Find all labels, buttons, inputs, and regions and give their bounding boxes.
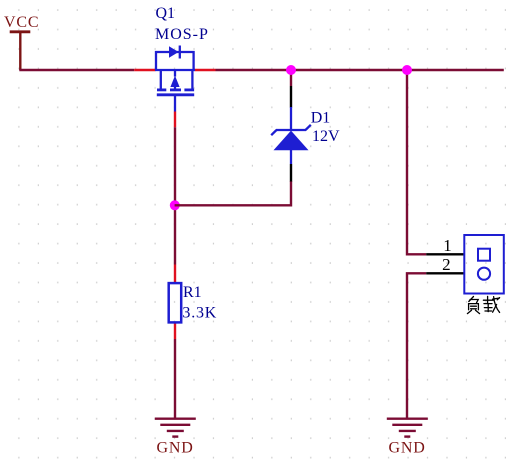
svg-text:1: 1 — [443, 236, 452, 255]
resistor R1 top pin (red) — [174, 265, 176, 284]
resistor R1 body — [169, 283, 182, 322]
junction node gate/R1 — [170, 200, 180, 210]
connector body (load header) — [464, 235, 504, 294]
svg-text:12V: 12V — [312, 128, 340, 145]
transistor Q1 body — [155, 46, 195, 112]
junction node rail/load — [402, 65, 412, 75]
svg-text:2: 2 — [442, 255, 451, 274]
diode D1 anode pin (black) — [290, 164, 292, 182]
svg-text:R1: R1 — [183, 284, 202, 301]
wire rail junction down to connector pin 1 — [407, 70, 426, 254]
connector pin 1 line (black) — [426, 253, 464, 255]
svg-text:Q1: Q1 — [156, 5, 176, 22]
diode D1 cathode pin (black) — [290, 86, 292, 108]
wire junction to D1 anode (horizontal + vertical) — [175, 181, 291, 205]
resistor R1 bottom pin (red) — [174, 322, 176, 339]
svg-text:GND: GND — [157, 440, 194, 457]
wire R1 to GND1 — [174, 339, 176, 418]
wire VCC to Q1 source pin — [19, 69, 134, 71]
power flag VCC — [10, 32, 31, 70]
label 负载 (load) — [467, 296, 499, 313]
svg-text:MOS-P: MOS-P — [155, 26, 209, 43]
junction node D1/rail — [286, 65, 296, 75]
transistor Q1 gate pin (red) — [174, 112, 176, 128]
svg-text:VCC: VCC — [4, 14, 39, 31]
wire connector pin 2 down to GND2 — [407, 273, 426, 417]
svg-text:GND: GND — [389, 440, 426, 457]
ground GND2 — [387, 419, 428, 437]
connector pin 2 line (black) — [426, 272, 464, 274]
wire Q1 gate down to junction and R1 — [174, 127, 176, 264]
wire Q1 drain to right rail — [216, 69, 504, 71]
wire stub D1 cathode to rail — [290, 70, 292, 86]
ground GND1 — [155, 419, 196, 437]
svg-text:3.3K: 3.3K — [182, 305, 217, 322]
transistor Q1 pin 1 (left, red) — [134, 69, 155, 71]
svg-text:D1: D1 — [311, 110, 331, 127]
transistor Q1 pin 2 (right, red) — [195, 69, 216, 71]
zener diode D1 body — [271, 107, 311, 164]
